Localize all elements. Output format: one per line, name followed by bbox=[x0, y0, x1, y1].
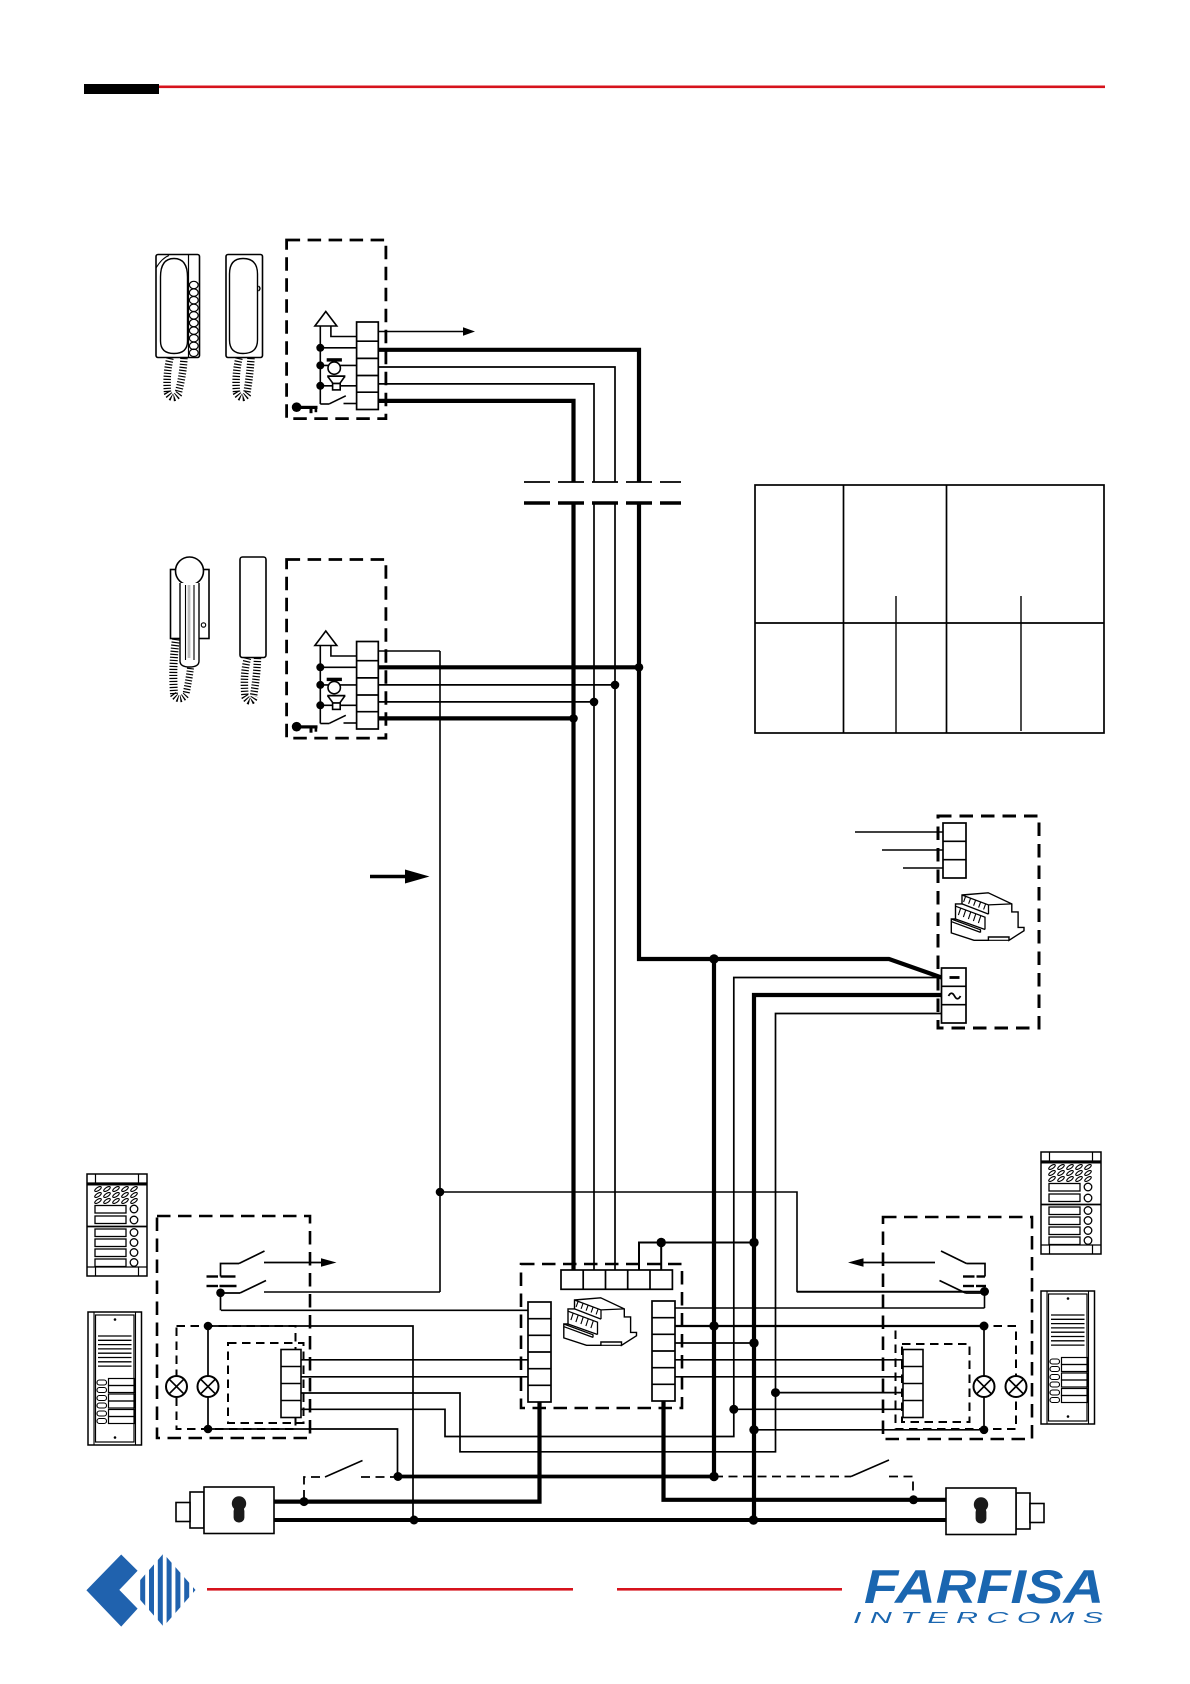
central right cell2 wire to right lamps bbox=[675, 1325, 984, 1327]
branch wire to right station terminal 3 bbox=[776, 1392, 904, 1394]
right audio door panel bbox=[1041, 1291, 1095, 1424]
call wire from unit 2 terminal 1 down bbox=[439, 651, 441, 1292]
junction dots right lamps bbox=[749, 1425, 758, 1434]
central unit top terminal row bbox=[561, 1270, 672, 1289]
left lamp chain wires bbox=[207, 1326, 209, 1429]
central right cell4 wire bbox=[675, 1359, 903, 1361]
unit 2 internal bus wires bbox=[320, 667, 356, 705]
unit 1 buzzer symbol bbox=[327, 358, 342, 374]
left exit switch lever bbox=[325, 1461, 363, 1478]
riser wire 1 thick bbox=[571, 503, 575, 1270]
central unit dashed enclosure bbox=[521, 1264, 682, 1408]
unit 2 terminal 3 wire bbox=[378, 684, 615, 686]
svg-text:I N T E R C O M S: I N T E R C O M S bbox=[853, 1610, 1104, 1627]
left station switch 1 with arrow bbox=[221, 1251, 323, 1277]
unit 2 buzzer symbol bbox=[327, 678, 342, 694]
central left cell1 wire to left station switch bbox=[221, 1309, 528, 1311]
header red rule bbox=[159, 86, 1105, 89]
unit 2 speaker symbol bbox=[327, 696, 345, 710]
junction dots interlock wire bbox=[410, 1516, 419, 1525]
direction arrow mid left bbox=[370, 875, 407, 878]
unit 1 speaker symbol bbox=[327, 376, 345, 390]
left lamp 2 bbox=[198, 1376, 219, 1397]
junction dots left lamps bbox=[204, 1322, 213, 1331]
power supply dashed enclosure bbox=[938, 816, 1039, 1028]
right lamps dashed box bbox=[896, 1326, 1017, 1429]
right door station dashed enclosure bbox=[883, 1217, 1032, 1439]
psu DIN module drawing bbox=[951, 893, 1024, 941]
central right cell5 wire bbox=[675, 1376, 903, 1378]
central unit DIN module drawing bbox=[564, 1298, 637, 1346]
phone 3 handset body bbox=[180, 583, 199, 667]
left lock keyhole bbox=[232, 1496, 246, 1522]
apartment unit 2 dashed enclosure bbox=[287, 560, 386, 739]
unit 2 key symbol bbox=[292, 722, 318, 733]
unit 2 terminal 5 wire (thick) bbox=[378, 716, 573, 720]
footer red rule left bbox=[207, 1588, 573, 1591]
junction dot exit wire right bbox=[709, 1472, 718, 1481]
riser tap junction dots floor 2 bbox=[569, 663, 643, 723]
psu output terminal block bbox=[942, 968, 967, 1023]
psu third wire to stations bbox=[301, 1014, 942, 1452]
junction dot branch bbox=[729, 1405, 738, 1414]
psu mains wire 3 bbox=[903, 867, 943, 869]
phone 2 coiled cord bbox=[236, 358, 251, 398]
right station capacitor marks bbox=[963, 1277, 986, 1287]
junction dot right switch feed bbox=[980, 1287, 989, 1296]
table column line 1 bbox=[843, 485, 845, 733]
table half column line a bbox=[895, 596, 897, 733]
conductor table frame bbox=[755, 485, 1104, 733]
unit 1 internal bus wires bbox=[320, 348, 356, 386]
right electric lock body bbox=[946, 1488, 1044, 1535]
unit 1 junction dots bbox=[316, 344, 324, 390]
phone 1 volume ring column bbox=[189, 281, 198, 356]
riser cable cut mark upper bbox=[524, 481, 681, 483]
call wire across to right station bbox=[440, 1192, 985, 1292]
central unit left terminal column bbox=[528, 1302, 551, 1402]
left door station dashed enclosure bbox=[157, 1216, 310, 1438]
phone 3 coiled cords bbox=[173, 639, 191, 699]
ACI logo striped diamond bbox=[140, 1545, 198, 1635]
right lamp 1 bbox=[974, 1376, 995, 1397]
right lock keyhole bbox=[974, 1497, 988, 1523]
branch wire to right station terminal 4 bbox=[734, 1408, 903, 1410]
right exit switch lever bbox=[851, 1460, 889, 1477]
junction dots ac link bbox=[657, 1238, 666, 1247]
right lamp 2 bbox=[1006, 1376, 1027, 1397]
unit 1 riser-up arrow symbol bbox=[315, 312, 357, 405]
left lamp bottom wire bbox=[208, 1429, 398, 1477]
junction dot left lock feed bbox=[300, 1497, 309, 1506]
unit 1 door-open switch bbox=[320, 396, 356, 404]
phone 3 earpiece circle bbox=[176, 557, 204, 585]
left exit switch dashed bbox=[304, 1477, 394, 1499]
riser wire 2 bbox=[593, 503, 595, 1270]
unit 1 terminal 3 wire bbox=[378, 367, 615, 482]
ACI logo diamond bbox=[86, 1555, 137, 1627]
right keypad entrance panel bbox=[1041, 1152, 1101, 1254]
psu mains wire 1 bbox=[855, 831, 943, 833]
dc thin wire from psu minus to door stations bbox=[301, 978, 942, 1437]
phone 4 coiled cord bbox=[244, 658, 257, 701]
central ac input stub cell 5 bbox=[660, 1243, 662, 1271]
table column line 2 bbox=[946, 485, 948, 733]
junction dot on ac feed bbox=[709, 954, 718, 963]
junction dot branch 775 bbox=[771, 1388, 780, 1397]
unit 1 terminal 5 wire (thick) bbox=[378, 401, 573, 482]
right station switch 2 bbox=[797, 1281, 985, 1294]
unit 2 terminal 2 wire (thick) bbox=[378, 665, 639, 669]
unit 2 riser-up arrow symbol bbox=[315, 631, 357, 724]
central left cell4 wire bbox=[301, 1359, 528, 1361]
bottom interlock wire thick across bbox=[274, 1518, 946, 1522]
unit 2 terminal block bbox=[357, 642, 379, 730]
right station switch 1 with arrow bbox=[862, 1251, 985, 1277]
right lamp bottom wire to ac bbox=[754, 1429, 984, 1431]
central right cell3 wire to ac bbox=[675, 1342, 754, 1344]
unit 1 terminal 2 wire (thick riser feed) bbox=[378, 350, 639, 482]
left lamp top wire bbox=[208, 1326, 413, 1520]
left station terminal block bbox=[281, 1350, 301, 1418]
central left bottom thick wire to left lock bbox=[274, 1402, 540, 1502]
central ac input link wire bbox=[639, 1243, 754, 1271]
left lamps dashed box bbox=[177, 1326, 296, 1429]
junction dots cell2 wire bbox=[709, 1321, 718, 1330]
psu ac tilde symbol bbox=[949, 993, 961, 999]
unit 1 terminal 4 wire bbox=[378, 384, 594, 482]
dc negative thick vertical wire bbox=[712, 959, 716, 1477]
right exit switch dashed bbox=[714, 1477, 913, 1499]
intercom handset phone 1 body bbox=[156, 255, 200, 358]
unit 1 key symbol bbox=[292, 402, 318, 413]
wall phone 4 body bbox=[240, 557, 266, 658]
psu mains terminal block bbox=[943, 823, 966, 878]
footer red rule right bbox=[617, 1588, 842, 1591]
left station capacitor marks bbox=[207, 1277, 237, 1287]
unit 2 door-open switch bbox=[320, 715, 356, 723]
svg-text:FARFISA: FARFISA bbox=[864, 1560, 1104, 1613]
left keypad entrance panel bbox=[87, 1174, 147, 1276]
central unit right terminal column bbox=[652, 1301, 675, 1401]
junction dot left switch 2 bbox=[216, 1289, 225, 1298]
junction dot left exit switch bbox=[394, 1472, 403, 1481]
unit 1 terminal block bbox=[357, 322, 379, 410]
right station terminal block bbox=[903, 1350, 923, 1418]
left electric lock body bbox=[176, 1487, 274, 1534]
phone 1 coiled cord bbox=[167, 358, 184, 398]
wall phone 3 backplate bbox=[171, 557, 210, 667]
psu minus symbol bbox=[950, 976, 960, 979]
left audio door panel bbox=[88, 1312, 142, 1445]
psu mains wire 2 bbox=[882, 849, 943, 851]
intercom handset phone 2 body bbox=[226, 255, 263, 358]
riser cable cut mark lower (thick) bbox=[524, 501, 681, 504]
unit 2 terminal 1 wire bbox=[378, 650, 440, 652]
ac thick wire from psu tilde down bbox=[754, 995, 942, 1520]
left module dashed box bbox=[228, 1343, 304, 1423]
right module dashed box bbox=[902, 1344, 970, 1422]
apartment unit 1 dashed enclosure bbox=[287, 240, 386, 419]
header black bar bbox=[84, 84, 159, 94]
table half column line b bbox=[1020, 596, 1022, 731]
left lamp 1 bbox=[166, 1376, 187, 1397]
unit 2 junction dots bbox=[316, 663, 324, 709]
junction dot call wire bbox=[436, 1188, 445, 1197]
central right bottom thick wire to right lock bbox=[664, 1401, 947, 1500]
unit 1 terminal 1 wire with arrow bbox=[378, 331, 464, 333]
riser wire 4 thick to power supply bbox=[639, 503, 942, 978]
unit 2 terminal 4 wire bbox=[378, 701, 594, 703]
junction dot right lock feed bbox=[909, 1495, 918, 1504]
table middle row line bbox=[755, 622, 1104, 624]
central right cell1 wire to right station switch bbox=[675, 1292, 985, 1309]
junction dot cell3 ac bbox=[749, 1338, 758, 1347]
exit wire thick between stations bbox=[398, 1475, 714, 1479]
right lamp chain wires bbox=[983, 1326, 985, 1430]
central left cell5 wire bbox=[301, 1376, 528, 1378]
phone 3 screw hole bbox=[201, 623, 205, 627]
left station switch 2 bbox=[221, 1281, 441, 1311]
riser wire 3 bbox=[614, 503, 616, 1270]
